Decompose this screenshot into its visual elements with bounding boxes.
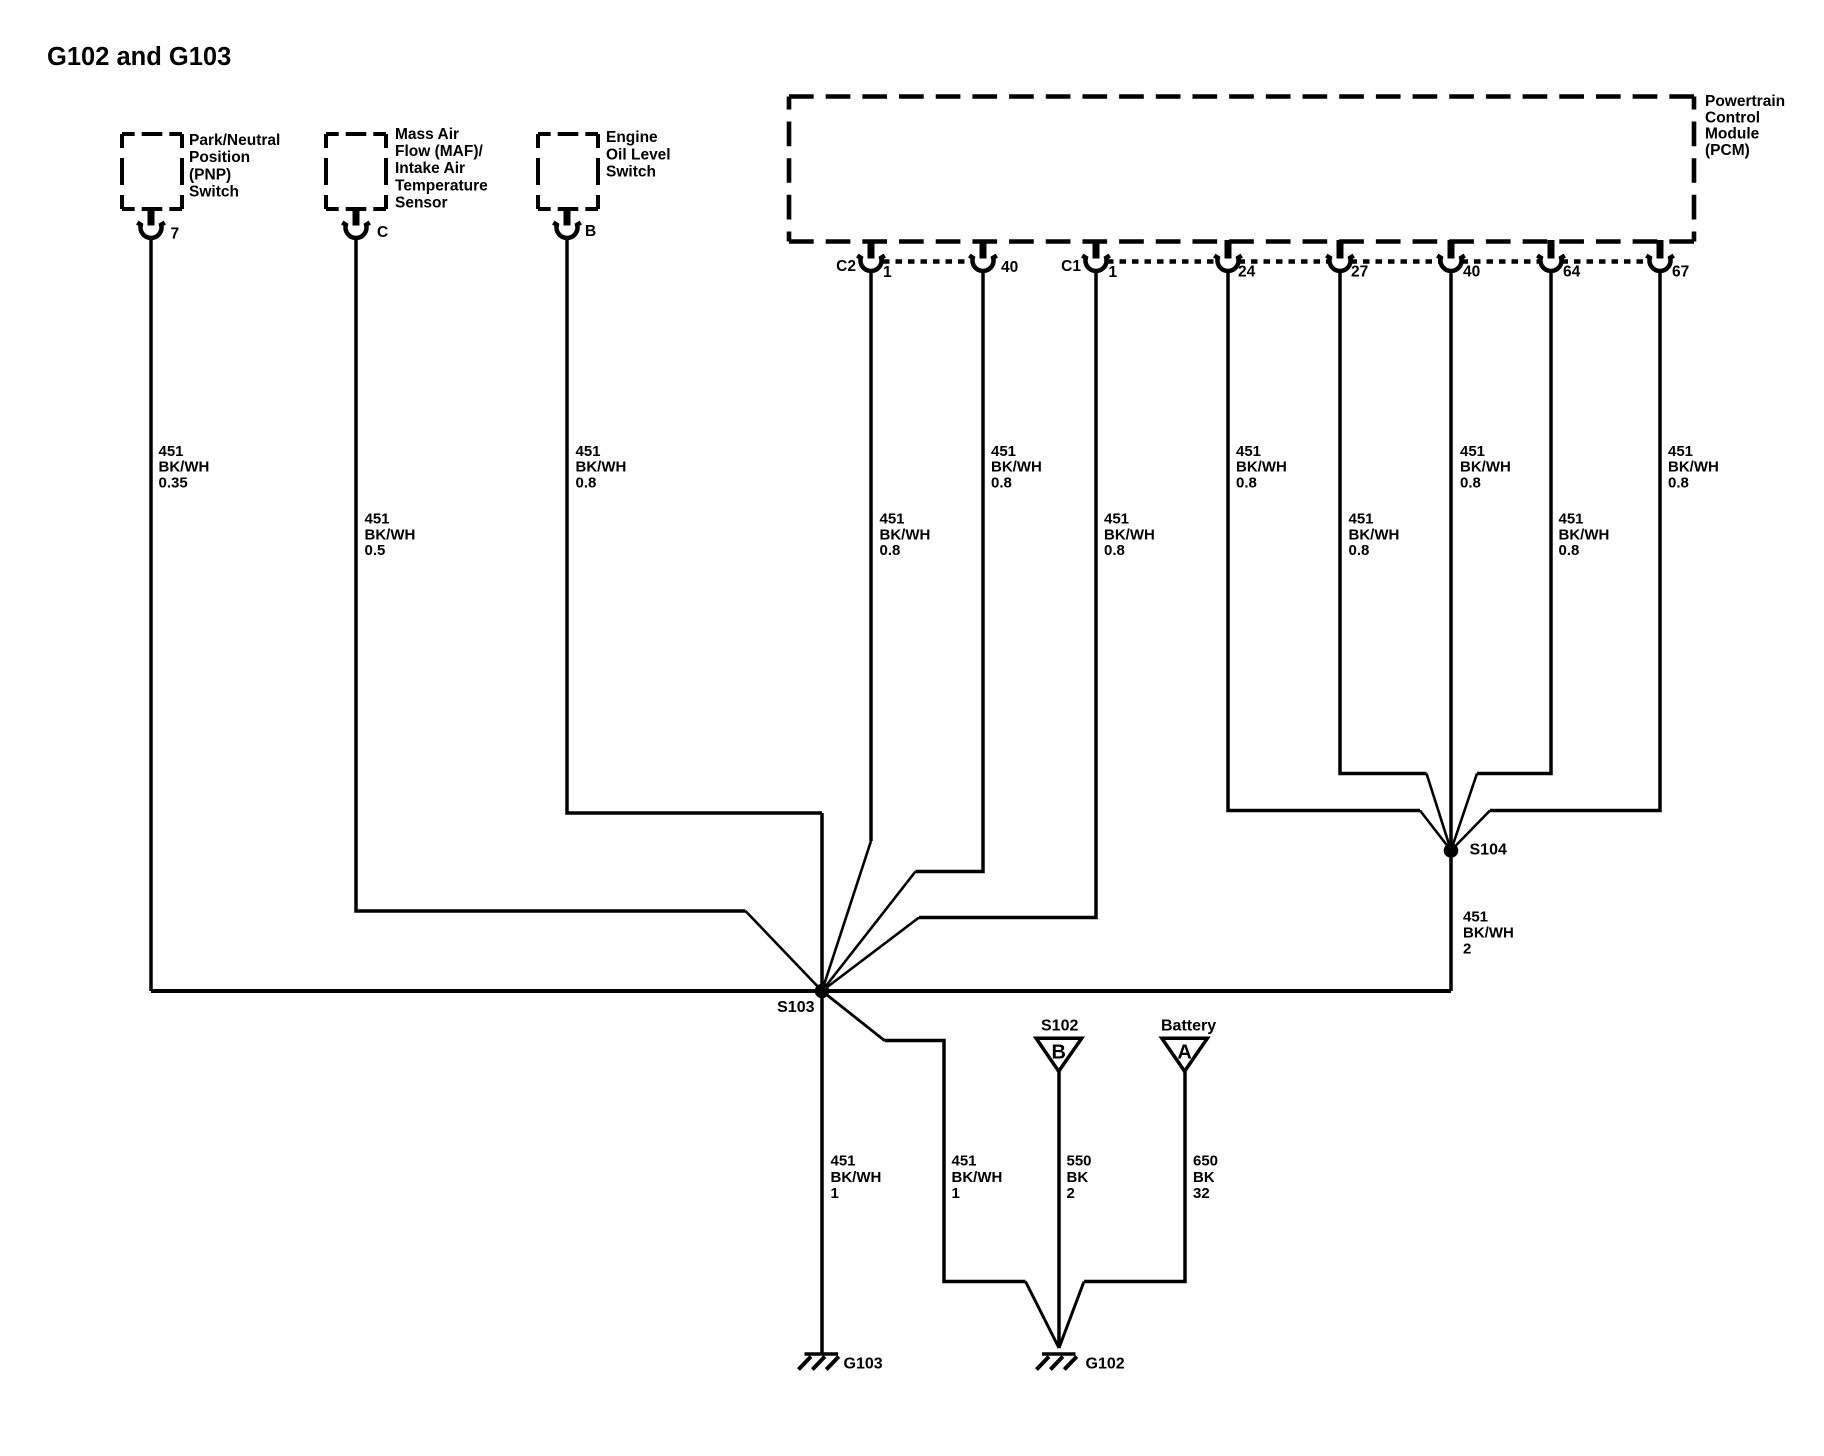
- Engine Oil Level Switch box: [538, 134, 598, 209]
- svg-text:B: B: [585, 223, 596, 240]
- svg-text:1: 1: [831, 1185, 839, 1202]
- svg-text:0.35: 0.35: [159, 474, 188, 491]
- wire segment diagonal MAF to S103: [746, 911, 823, 991]
- wire segment diagonal C2-1 to S103: [822, 841, 871, 991]
- svg-text:550: 550: [1067, 1153, 1092, 1170]
- ground G103: [799, 1354, 839, 1370]
- svg-text:67: 67: [1672, 264, 1689, 281]
- wire 451 BK/WH 0.5 from MAF pin C: [356, 238, 746, 911]
- wire label 451 BK/WH 0.8 (C2-1): [880, 511, 931, 559]
- svg-text:BK/WH: BK/WH: [1559, 526, 1610, 543]
- wire label 451 BK/WH 1 (S103 to G102): [952, 1153, 1003, 1202]
- wire vertical through S103 to G103: [820, 813, 824, 1353]
- svg-text:Switch: Switch: [606, 164, 656, 181]
- svg-text:1: 1: [883, 264, 892, 281]
- wire label 650 BK 32: [1193, 1153, 1218, 1202]
- svg-text:Switch: Switch: [189, 184, 239, 201]
- svg-text:0.8: 0.8: [1104, 542, 1125, 559]
- wire 550 BK 2 from S102 to G102: [1057, 1072, 1061, 1349]
- svg-text:0.8: 0.8: [1349, 542, 1370, 559]
- MAF sensor label: [395, 126, 488, 212]
- svg-text:BK/WH: BK/WH: [1349, 526, 1400, 543]
- PCM connector C1 dotted row: [1107, 259, 1650, 264]
- wire 451 BK/WH 1 from S103 to G102: [822, 991, 885, 1041]
- svg-text:451: 451: [1104, 511, 1129, 528]
- svg-text:BK/WH: BK/WH: [576, 459, 627, 476]
- svg-text:1: 1: [952, 1185, 960, 1202]
- svg-text:0.8: 0.8: [1668, 474, 1689, 491]
- svg-text:BK/WH: BK/WH: [880, 526, 931, 543]
- wire label 451 BK/WH 0.8 (pin 40 C1 row): [1460, 443, 1511, 491]
- svg-text:Position: Position: [189, 149, 250, 166]
- svg-text:Sensor: Sensor: [395, 195, 448, 212]
- svg-text:Battery: Battery: [1161, 1018, 1216, 1035]
- wire 650 BK 32 from Battery to G102: [1084, 1072, 1185, 1282]
- wire label 451 BK/WH 0.35: [159, 443, 210, 491]
- svg-text:S103: S103: [777, 999, 814, 1016]
- wire 451 BK/WH 0.8 from PCM C1 pin 1: [919, 271, 1096, 918]
- wire segment diagonal pin27 to S104: [1427, 774, 1452, 851]
- wire label 451 BK/WH 0.8 (pin 40): [991, 443, 1042, 491]
- wire 451 BK/WH 0.8 from PCM C2 pin 40: [916, 271, 984, 872]
- svg-text:1: 1: [1109, 264, 1118, 281]
- svg-text:650: 650: [1193, 1153, 1218, 1170]
- Engine Oil Level Switch label: [606, 129, 671, 180]
- PCM connector pin C2-1: [857, 240, 885, 271]
- svg-text:BK/WH: BK/WH: [1460, 459, 1511, 476]
- wire label 451 BK/WH 0.8 (pin 27): [1349, 511, 1400, 559]
- svg-text:Module: Module: [1705, 126, 1760, 143]
- PCM connector pin 40 (C2 row): [969, 240, 997, 271]
- svg-text:BK/WH: BK/WH: [1463, 925, 1514, 942]
- svg-text:451: 451: [159, 443, 184, 460]
- svg-text:G103: G103: [844, 1356, 883, 1373]
- svg-text:BK/WH: BK/WH: [1236, 459, 1287, 476]
- svg-text:G102 and G103: G102 and G103: [47, 43, 231, 71]
- svg-text:64: 64: [1563, 264, 1581, 281]
- svg-text:0.8: 0.8: [1460, 474, 1481, 491]
- connector pin C of MAF sensor: [342, 208, 370, 238]
- svg-text:Engine: Engine: [606, 129, 658, 146]
- svg-text:24: 24: [1238, 264, 1256, 281]
- svg-text:27: 27: [1351, 264, 1368, 281]
- svg-text:BK: BK: [1193, 1169, 1215, 1186]
- wire main bus S103 to S104 at y=990: [151, 989, 1451, 993]
- PCM connector C2 dotted row: [883, 259, 972, 264]
- svg-text:B: B: [1051, 1042, 1065, 1064]
- wire label 451 BK/WH 0.8 (pin 24): [1236, 443, 1287, 491]
- wire label 451 BK/WH 0.8 (pin 67): [1668, 443, 1719, 491]
- connector pin 7 of PNP switch: [137, 208, 165, 238]
- svg-text:BK/WH: BK/WH: [159, 459, 210, 476]
- svg-text:G102: G102: [1086, 1356, 1125, 1373]
- svg-text:S104: S104: [1470, 842, 1507, 859]
- wire segment diagonal C1-1 to S103: [822, 918, 919, 992]
- Powertrain Control Module (PCM) box: [789, 97, 1694, 242]
- svg-text:0.8: 0.8: [576, 474, 597, 491]
- wire 451 BK/WH 0.8 from Engine Oil Level Switch pin B: [567, 238, 822, 813]
- svg-text:40: 40: [1463, 264, 1480, 281]
- PCM connector pin 24: [1214, 240, 1242, 271]
- svg-text:2: 2: [1067, 1185, 1075, 1202]
- wire segment diagonal pin64 to S104: [1451, 774, 1477, 851]
- svg-text:32: 32: [1193, 1185, 1210, 1202]
- wire 451 BK/WH 0.8 from PCM C2 pin 1: [869, 271, 873, 841]
- PCM connector pin 67: [1646, 240, 1674, 271]
- svg-text:Powertrain: Powertrain: [1705, 93, 1785, 110]
- svg-text:451: 451: [365, 511, 390, 528]
- wire label 451 BK/WH 0.8 (C1-1): [1104, 511, 1155, 559]
- svg-text:0.5: 0.5: [365, 542, 386, 559]
- svg-text:BK/WH: BK/WH: [991, 459, 1042, 476]
- svg-text:451: 451: [1559, 511, 1584, 528]
- svg-text:S102: S102: [1041, 1018, 1078, 1035]
- svg-text:Mass Air: Mass Air: [395, 126, 459, 143]
- svg-text:451: 451: [991, 443, 1016, 460]
- svg-text:451: 451: [952, 1153, 977, 1170]
- svg-text:C: C: [377, 224, 388, 241]
- svg-text:451: 451: [576, 443, 601, 460]
- svg-text:451: 451: [831, 1153, 856, 1170]
- wire label 550 BK 2: [1067, 1153, 1092, 1202]
- svg-text:Flow (MAF)/: Flow (MAF)/: [395, 143, 484, 160]
- svg-text:40: 40: [1001, 259, 1018, 276]
- svg-text:451: 451: [880, 511, 905, 528]
- svg-text:451: 451: [1236, 443, 1261, 460]
- svg-text:0.8: 0.8: [1236, 474, 1257, 491]
- svg-text:BK/WH: BK/WH: [831, 1169, 882, 1186]
- svg-text:451: 451: [1349, 511, 1374, 528]
- connector triangle Battery A: [1162, 1038, 1208, 1071]
- splice S104: [1444, 843, 1459, 858]
- svg-text:Park/Neutral: Park/Neutral: [189, 132, 280, 149]
- svg-text:BK/WH: BK/WH: [1104, 526, 1155, 543]
- svg-text:451: 451: [1463, 909, 1488, 926]
- wire 451 BK/WH 0.8 from PCM pin 64: [1477, 271, 1551, 774]
- svg-text:7: 7: [171, 226, 180, 243]
- svg-text:Control: Control: [1705, 109, 1760, 126]
- svg-text:0.8: 0.8: [880, 542, 901, 559]
- svg-text:C2: C2: [836, 258, 856, 275]
- wire label 451 BK/WH 1 (S103 to G103): [831, 1153, 882, 1202]
- svg-text:Temperature: Temperature: [395, 177, 488, 194]
- wire label 451 BK/WH 0.5: [365, 511, 416, 559]
- wire segment diagonal pin24 to S104: [1420, 811, 1451, 851]
- svg-text:A: A: [1177, 1042, 1191, 1064]
- svg-text:(PCM): (PCM): [1705, 142, 1750, 159]
- Park/Neutral Position (PNP) Switch box: [122, 134, 182, 209]
- wire label 451 BK/WH 2 (S104 to S103): [1463, 909, 1514, 958]
- svg-text:BK/WH: BK/WH: [1668, 459, 1719, 476]
- PCM connector pin C1-1: [1082, 240, 1110, 271]
- wire 451 BK/WH 0.8 from PCM pin 27: [1340, 271, 1427, 774]
- connector pin B of Engine Oil Level Switch: [553, 208, 581, 238]
- svg-text:BK/WH: BK/WH: [952, 1169, 1003, 1186]
- svg-text:Oil Level: Oil Level: [606, 146, 671, 163]
- PCM connector pin 64: [1537, 240, 1565, 271]
- svg-text:Intake Air: Intake Air: [395, 160, 465, 177]
- wire label 451 BK/WH 0.8 (EOL): [576, 443, 627, 491]
- Mass Air Flow (MAF)/Intake Air Temperature Sensor box: [326, 134, 386, 209]
- svg-text:451: 451: [1460, 443, 1485, 460]
- svg-text:BK: BK: [1067, 1169, 1089, 1186]
- svg-text:C1: C1: [1061, 258, 1081, 275]
- wire segment diagonal pin67 to S104: [1451, 811, 1490, 851]
- ground G102: [1037, 1354, 1077, 1370]
- svg-text:BK/WH: BK/WH: [365, 526, 416, 543]
- wire 451 BK/WH 0.8 from PCM pin 24: [1228, 271, 1420, 811]
- wire segment diagonal pin40 to S103: [822, 872, 916, 992]
- svg-text:(PNP): (PNP): [189, 166, 231, 183]
- svg-text:0.8: 0.8: [1559, 542, 1580, 559]
- wire 451 BK/WH 0.35 from PNP pin 7 down: [149, 238, 153, 991]
- wire 451 BK/WH 0.8 from PCM C1 pin 40 straight to S104: [1449, 271, 1453, 991]
- wire 451 BK/WH 0.8 from PCM pin 67: [1490, 271, 1660, 811]
- PCM label: [1705, 93, 1785, 159]
- svg-text:0.8: 0.8: [991, 474, 1012, 491]
- svg-text:2: 2: [1463, 941, 1471, 958]
- svg-text:451: 451: [1668, 443, 1693, 460]
- PCM connector pin 27: [1326, 240, 1354, 271]
- PCM connector pin 40 (C1 row): [1437, 240, 1465, 271]
- wire label 451 BK/WH 0.8 (pin 64): [1559, 511, 1610, 559]
- connector triangle S102 B: [1036, 1038, 1082, 1071]
- splice S103: [815, 984, 830, 999]
- PNP Switch label: [189, 132, 280, 201]
